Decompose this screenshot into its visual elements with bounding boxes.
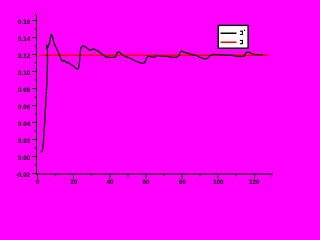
data curve — [41, 35, 263, 152]
svg-text:0.08: 0.08 — [18, 87, 31, 94]
x major ticks — [38, 174, 255, 178]
svg-text:60: 60 — [142, 179, 150, 186]
svg-text:0: 0 — [36, 179, 40, 186]
y tick labels — [16, 19, 31, 179]
svg-text:100: 100 — [213, 179, 224, 186]
svg-text:20: 20 — [70, 179, 78, 186]
svg-text:0.00: 0.00 — [18, 155, 31, 162]
legend box — [218, 25, 248, 48]
svg-text:0.16: 0.16 — [18, 19, 31, 26]
svg-text:0.04: 0.04 — [18, 121, 31, 128]
legend glyph 1 — [240, 31, 243, 34]
y major ticks — [32, 21, 37, 174]
svg-text:80: 80 — [179, 179, 187, 186]
red reference line — [40, 54, 269, 56]
legend glyph 1 prime — [244, 30, 245, 31]
svg-text:0.10: 0.10 — [18, 70, 31, 77]
legend line 2 (red) — [221, 41, 237, 43]
svg-text:0.12: 0.12 — [18, 53, 31, 60]
svg-text:-0.02: -0.02 — [16, 172, 31, 179]
legend glyph 2 — [240, 40, 243, 43]
y-axis — [35, 14, 37, 175]
svg-text:40: 40 — [106, 179, 114, 186]
svg-text:0.14: 0.14 — [18, 36, 31, 43]
legend line 1 (black) — [221, 32, 237, 34]
x minor ticks — [56, 174, 272, 177]
x tick labels — [36, 179, 260, 186]
svg-text:120: 120 — [249, 179, 260, 186]
x-axis — [36, 173, 273, 175]
svg-text:0.06: 0.06 — [18, 104, 31, 111]
svg-text:0.02: 0.02 — [18, 138, 31, 145]
y minor ticks — [34, 15, 37, 165]
